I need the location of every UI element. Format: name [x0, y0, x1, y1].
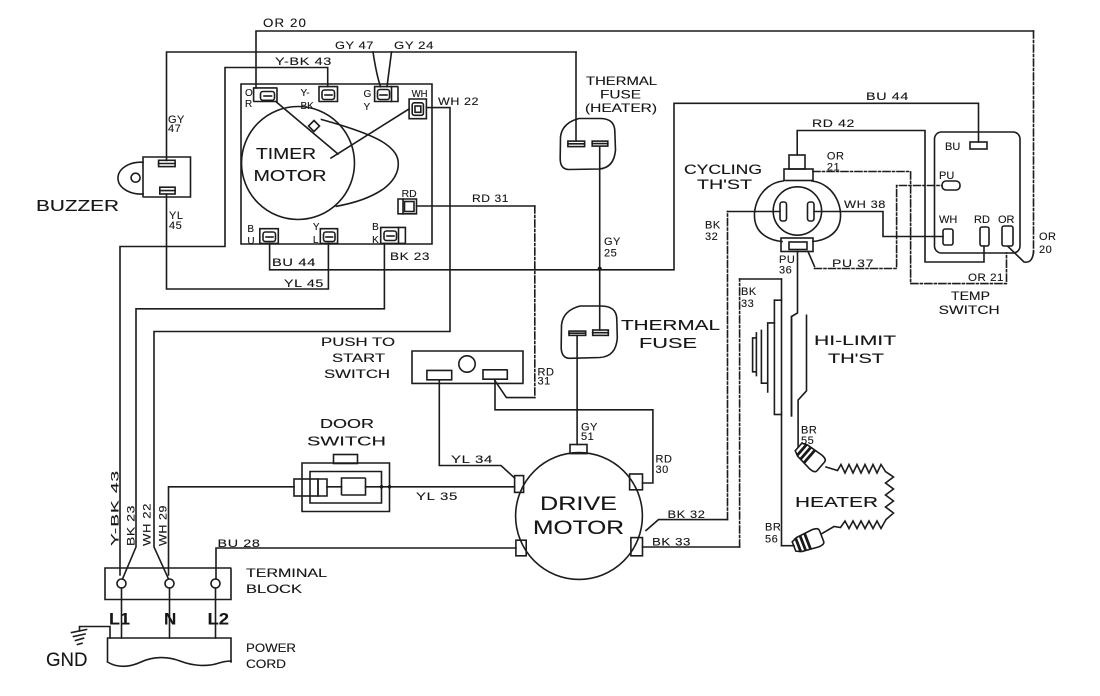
thermal fuse heater body: [560, 74, 657, 170]
timer pin BU: [247, 224, 278, 247]
svg-text:45: 45: [169, 220, 182, 232]
timer block box: [241, 84, 432, 244]
svg-text:GY 24: GY 24: [394, 40, 434, 52]
svg-text:RD: RD: [402, 189, 417, 200]
thermal fuse 2 body: [561, 306, 720, 358]
svg-text:32: 32: [705, 231, 718, 243]
timer pin OR: [245, 88, 277, 110]
svg-text:Y: Y: [364, 102, 371, 113]
wire BK 23: [123, 243, 385, 579]
svg-text:POWER: POWER: [246, 643, 296, 655]
timer cam follower: [309, 121, 320, 132]
svg-text:TEMP: TEMP: [951, 289, 990, 303]
temp switch box: [935, 132, 1021, 253]
svg-text:BUZZER: BUZZER: [36, 198, 119, 215]
svg-text:BR: BR: [765, 522, 781, 534]
svg-text:BK 23: BK 23: [390, 251, 430, 263]
wire WH 29: [169, 487, 295, 575]
svg-text:THERMAL: THERMAL: [586, 74, 657, 88]
svg-text:TERMINAL: TERMINAL: [246, 568, 328, 580]
svg-text:BU 44: BU 44: [272, 257, 316, 269]
cycling left contact: [780, 202, 787, 221]
svg-text:HI-LIMIT: HI-LIMIT: [814, 333, 896, 348]
door switch: [294, 416, 391, 512]
terminal L2: [211, 579, 220, 588]
svg-text:BLOCK: BLOCK: [246, 584, 302, 596]
wire BK 32: [646, 212, 780, 531]
svg-text:DOOR: DOOR: [320, 416, 374, 431]
svg-text:K: K: [372, 235, 379, 246]
svg-text:BU: BU: [945, 141, 960, 153]
svg-text:CYCLING: CYCLING: [684, 162, 762, 177]
ground: [46, 627, 110, 672]
svg-text:WH 38: WH 38: [844, 199, 886, 211]
svg-text:TH'ST: TH'ST: [697, 177, 752, 192]
svg-text:RD 31: RD 31: [472, 193, 509, 205]
svg-text:Y: Y: [313, 222, 320, 233]
svg-text:PU 37: PU 37: [832, 258, 874, 270]
svg-text:G: G: [364, 89, 372, 100]
svg-text:31: 31: [538, 376, 551, 388]
svg-text:SWITCH: SWITCH: [307, 434, 386, 449]
svg-text:L1: L1: [109, 610, 130, 629]
wire GY 25: [598, 146, 602, 330]
svg-text:25: 25: [604, 248, 617, 260]
wire PU 37: [808, 186, 942, 269]
wire GY 24: [387, 52, 576, 141]
motor pin BU28: [516, 540, 526, 556]
svg-text:51: 51: [581, 431, 594, 443]
svg-text:OR: OR: [1039, 231, 1057, 243]
svg-text:PU: PU: [939, 170, 954, 182]
cycling thermostat body: [773, 187, 821, 235]
svg-text:SWITCH: SWITCH: [324, 367, 390, 381]
buzzer: [36, 157, 191, 215]
hi-limit thermostat: [753, 300, 896, 447]
svg-text:21: 21: [827, 162, 840, 174]
svg-text:55: 55: [801, 435, 814, 447]
wire WH 22: [154, 108, 450, 579]
wire GY 51: [576, 335, 578, 444]
timer pin BK: [372, 222, 405, 246]
svg-text:MOTOR: MOTOR: [533, 518, 624, 539]
svg-text:B: B: [247, 224, 254, 235]
svg-text:BK 23: BK 23: [126, 505, 138, 546]
wire RD 31: [417, 206, 535, 398]
svg-text:20: 20: [1039, 244, 1052, 256]
timer contact arm B: [331, 109, 409, 158]
temp switch pin WH: [943, 229, 953, 245]
timer contact arm A: [276, 102, 338, 155]
heater element zigzag: [795, 465, 894, 534]
svg-text:FUSE: FUSE: [639, 335, 697, 352]
svg-text:WH 29: WH 29: [158, 505, 170, 546]
svg-text:START: START: [332, 351, 386, 365]
timer pin GY: [364, 87, 399, 113]
svg-text:YL 45: YL 45: [284, 278, 324, 290]
timer motor circle: [242, 107, 355, 220]
svg-text:BK: BK: [301, 101, 315, 112]
wire BU 44: [270, 103, 979, 269]
wire BU 28: [216, 548, 516, 579]
cycling thermostat right wing: [812, 181, 841, 242]
svg-text:L2: L2: [208, 610, 230, 629]
svg-text:Y-: Y-: [301, 88, 310, 99]
wire GY 47: [167, 52, 577, 161]
push to start switch: [321, 335, 523, 383]
svg-text:TIMER: TIMER: [256, 146, 316, 163]
svg-text:RD: RD: [974, 214, 990, 226]
temp switch pin RD: [980, 227, 989, 246]
heater connector BR55: [792, 440, 826, 473]
svg-text:GY: GY: [604, 236, 621, 248]
cycling thermostat left wing: [754, 181, 783, 242]
svg-text:YL 34: YL 34: [451, 454, 493, 466]
timer pin Y-BK: [301, 87, 338, 112]
svg-text:BK 32: BK 32: [668, 509, 706, 521]
motor pin GY51: [570, 445, 587, 454]
timer pin WH: [409, 89, 428, 119]
WIRE LABELS: [110, 16, 1057, 550]
svg-text:GY 47: GY 47: [335, 40, 374, 52]
svg-text:Y-BK 43: Y-BK 43: [110, 470, 122, 546]
svg-text:Y-BK 43: Y-BK 43: [275, 56, 332, 68]
power cord: [108, 638, 297, 671]
svg-text:OR: OR: [998, 214, 1015, 226]
svg-text:B: B: [372, 222, 379, 233]
svg-text:OR 21: OR 21: [968, 272, 1004, 284]
motor pin BK33: [631, 538, 643, 556]
wire PU 36: [792, 252, 798, 416]
terminal N: [165, 579, 174, 588]
svg-text:BU 28: BU 28: [218, 538, 261, 550]
temp switch: [935, 132, 1021, 317]
svg-text:DRIVE: DRIVE: [540, 494, 617, 515]
svg-text:L: L: [313, 235, 319, 246]
svg-text:R: R: [245, 99, 252, 110]
motor pin YL: [515, 476, 524, 493]
wire YL 45: [167, 194, 329, 289]
cycling right contact: [808, 202, 815, 221]
svg-text:U: U: [247, 236, 254, 247]
svg-text:HEATER: HEATER: [795, 494, 878, 511]
wire RD 30: [495, 381, 653, 484]
svg-text:47: 47: [168, 123, 181, 135]
svg-text:BK: BK: [741, 286, 757, 298]
svg-text:PUSH TO: PUSH TO: [321, 335, 395, 349]
timer pin YL: [313, 222, 338, 246]
wire YL 34: [439, 380, 514, 478]
svg-text:FUSE: FUSE: [600, 88, 641, 102]
heater connector BR56: [791, 527, 825, 555]
drive motor: [515, 445, 643, 580]
svg-text:56: 56: [765, 534, 778, 546]
timer pin RD: [398, 189, 417, 214]
terminal L1: [117, 579, 126, 588]
svg-text:BU 44: BU 44: [866, 91, 909, 103]
svg-text:WH: WH: [412, 89, 428, 100]
svg-text:33: 33: [741, 298, 754, 310]
wire OR 21: [813, 172, 1007, 284]
cycling thermostat: [684, 155, 841, 252]
temp switch pin BU: [970, 142, 987, 149]
svg-text:MOTOR: MOTOR: [254, 168, 327, 185]
svg-text:WH: WH: [939, 214, 957, 226]
svg-text:OR 20: OR 20: [263, 16, 307, 30]
wire YL 35: [327, 486, 515, 488]
svg-text:BK: BK: [705, 220, 721, 232]
wire OR 20 top: [256, 31, 1034, 262]
svg-text:SWITCH: SWITCH: [939, 303, 1000, 317]
wire RD 42: [797, 131, 984, 263]
svg-text:36: 36: [779, 265, 792, 277]
cycling top terminal: [789, 155, 805, 169]
wire Y-BK 43: [120, 68, 328, 576]
svg-text:RD 42: RD 42: [812, 118, 855, 130]
svg-text:30: 30: [656, 464, 669, 476]
svg-text:N: N: [164, 610, 176, 629]
svg-text:WH 22: WH 22: [438, 96, 479, 108]
svg-text:WH 22: WH 22: [142, 503, 154, 546]
timer cam lobe: [322, 120, 399, 207]
terminal block: [105, 568, 328, 638]
motor pin RD30: [630, 474, 643, 490]
svg-text:THERMAL: THERMAL: [621, 317, 720, 334]
svg-text:CORD: CORD: [246, 659, 286, 671]
wire BK 33: [643, 279, 795, 547]
svg-text:BK 33: BK 33: [652, 537, 691, 549]
svg-text:O: O: [245, 88, 253, 99]
svg-text:TH'ST: TH'ST: [828, 351, 884, 366]
cycling bottom terminal: [781, 238, 813, 252]
svg-text:(HEATER): (HEATER): [585, 101, 657, 115]
timer label TIMER MOTOR: [254, 146, 327, 185]
svg-text:YL 35: YL 35: [416, 491, 458, 503]
temp switch pin OR: [1002, 226, 1013, 246]
svg-text:GND: GND: [46, 650, 88, 671]
wire WH 38: [814, 212, 943, 237]
temp switch pin PU: [942, 181, 960, 190]
